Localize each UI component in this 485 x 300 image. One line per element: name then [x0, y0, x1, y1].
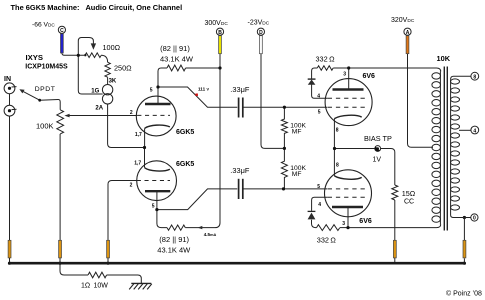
svg-text:A: A	[406, 30, 410, 36]
svg-text:250Ω: 250Ω	[114, 64, 132, 73]
svg-text:1,7: 1,7	[134, 161, 141, 167]
svg-text:The 6GK5 Machine: Audio Circ: The 6GK5 Machine: Audio Circuit, One Cha…	[11, 3, 183, 12]
svg-text:2A: 2A	[95, 106, 103, 112]
svg-text:43.1K 4W: 43.1K 4W	[157, 246, 191, 255]
svg-text:6GK5: 6GK5	[176, 161, 194, 168]
svg-text:10W: 10W	[94, 283, 109, 290]
svg-text:.33μF: .33μF	[230, 166, 250, 175]
svg-text:43.1K 4W: 43.1K 4W	[160, 54, 194, 63]
svg-text:BIAS TP: BIAS TP	[364, 134, 392, 143]
svg-text:5: 5	[317, 184, 320, 190]
svg-text:B: B	[218, 30, 222, 36]
svg-text:1Ω: 1Ω	[81, 283, 90, 290]
svg-text:3: 3	[342, 221, 345, 227]
svg-text:.33μF: .33μF	[230, 85, 250, 94]
svg-text:4: 4	[318, 202, 321, 208]
svg-text:(82 || 91): (82 || 91)	[160, 44, 190, 53]
svg-text:MF: MF	[292, 128, 302, 135]
svg-text:IXYS: IXYS	[26, 53, 44, 62]
svg-text:CC: CC	[404, 199, 414, 206]
svg-text:300VDC: 300VDC	[205, 20, 229, 27]
svg-text:8: 8	[473, 74, 476, 80]
svg-text:D: D	[259, 30, 263, 36]
svg-text:2: 2	[130, 110, 133, 116]
svg-text:© Poinz ’08: © Poinz ’08	[446, 290, 482, 298]
svg-text:320VDC: 320VDC	[391, 17, 415, 24]
svg-text:IN: IN	[4, 76, 11, 83]
svg-text:3K: 3K	[109, 79, 117, 85]
svg-text:4: 4	[317, 93, 320, 99]
svg-text:1V: 1V	[373, 157, 382, 164]
svg-text:-23VDC: -23VDC	[248, 20, 270, 27]
svg-text:4: 4	[473, 129, 476, 135]
svg-text:0: 0	[473, 216, 476, 222]
svg-text:332 Ω: 332 Ω	[317, 236, 337, 245]
svg-text:C: C	[60, 28, 64, 34]
svg-text:15Ω: 15Ω	[402, 189, 416, 198]
svg-text:6V6: 6V6	[359, 218, 372, 225]
svg-text:5: 5	[318, 109, 321, 115]
svg-text:DPDT: DPDT	[35, 86, 56, 93]
svg-text:1,7: 1,7	[135, 132, 142, 138]
svg-text:5: 5	[150, 88, 153, 94]
svg-text:1G: 1G	[91, 88, 99, 94]
svg-text:10K: 10K	[437, 54, 451, 63]
svg-text:2: 2	[130, 182, 133, 188]
svg-text:111 V: 111 V	[198, 86, 209, 91]
svg-text:8: 8	[336, 163, 339, 169]
svg-text:6V6: 6V6	[363, 73, 376, 80]
svg-text:8: 8	[336, 127, 339, 133]
svg-text:5: 5	[152, 204, 155, 210]
svg-text:100Ω: 100Ω	[103, 43, 121, 52]
svg-text:4.5mA: 4.5mA	[204, 232, 217, 237]
svg-text:100K: 100K	[36, 122, 54, 131]
svg-text:3: 3	[343, 72, 346, 78]
svg-text:6GK5: 6GK5	[176, 129, 194, 136]
svg-text:(82 || 91): (82 || 91)	[159, 235, 189, 244]
svg-text:-66 VDC: -66 VDC	[32, 22, 55, 29]
svg-text:ICXP10M45S: ICXP10M45S	[25, 64, 68, 71]
svg-text:332 Ω: 332 Ω	[316, 54, 336, 63]
svg-text:MF: MF	[292, 171, 302, 178]
